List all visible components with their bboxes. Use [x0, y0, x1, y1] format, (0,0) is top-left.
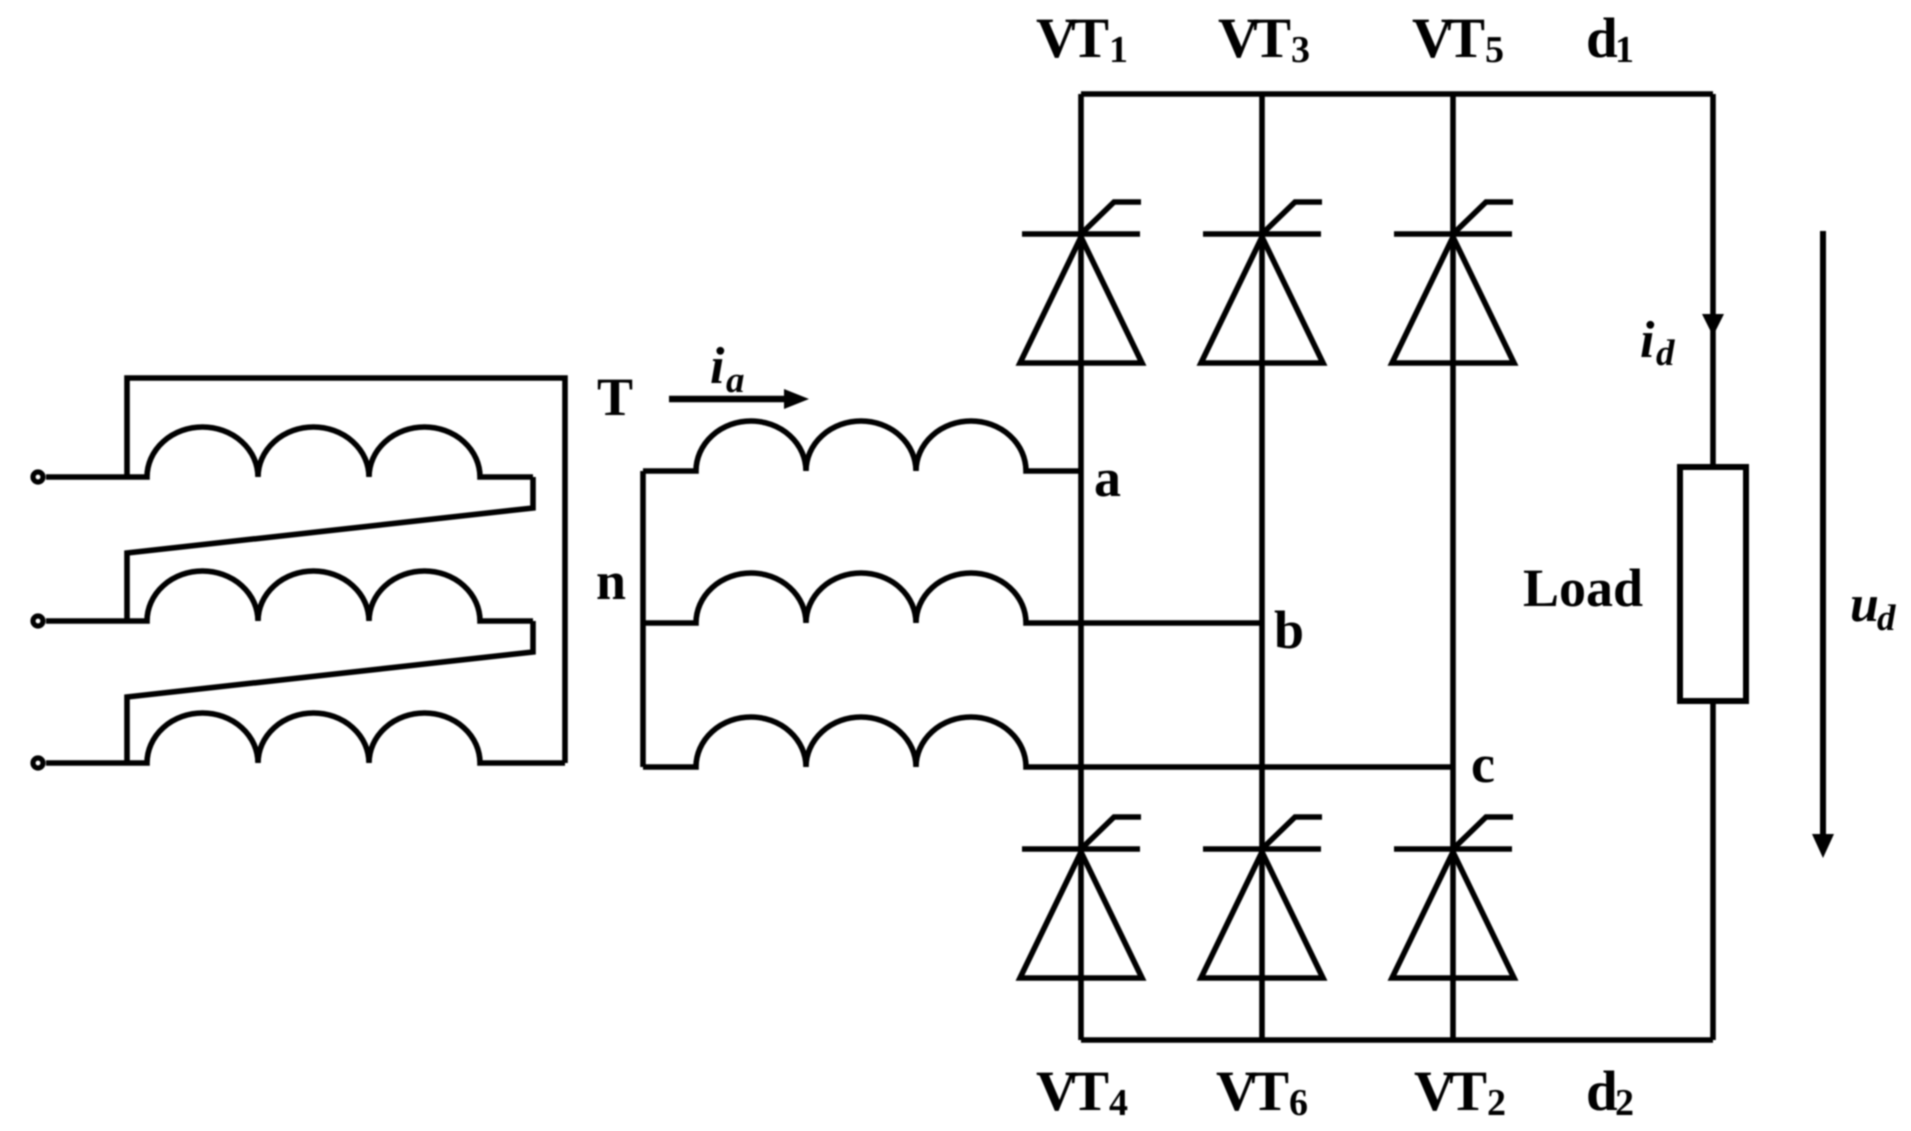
svg-text:VT: VT — [1216, 1060, 1289, 1123]
thyristor VT4 — [1020, 817, 1142, 978]
thyristor VT3 — [1201, 202, 1323, 363]
transformer T primary terminal 1 — [33, 472, 43, 482]
label ud — [1850, 576, 1896, 639]
wire delta link winding2 to winding3 — [127, 621, 533, 763]
svg-text:3: 3 — [1291, 29, 1310, 71]
wire delta frame (top link and right return) — [127, 378, 565, 763]
wire bottom DC bus d2 — [1081, 1037, 1713, 1043]
wire bridge leg phase b — [1259, 94, 1265, 1040]
wire bridge leg phase c — [1450, 94, 1456, 1040]
svg-text:d: d — [1877, 598, 1896, 639]
svg-text:i: i — [710, 338, 725, 395]
secondary winding a (coil) — [643, 421, 1081, 471]
svg-text:VT: VT — [1414, 1060, 1487, 1123]
wire d1 bus to load — [1710, 94, 1716, 464]
primary winding 3 (coil) — [127, 713, 565, 763]
arrow ia — [669, 389, 809, 409]
arrowhead current id — [1702, 314, 1724, 336]
primary winding 2 (coil) — [127, 571, 533, 621]
label d1 — [1586, 7, 1634, 71]
label id — [1640, 312, 1675, 374]
svg-text:b: b — [1274, 600, 1304, 660]
wire terminal2 to delta — [46, 618, 127, 624]
svg-text:VT: VT — [1036, 1060, 1109, 1123]
label VT1 — [1036, 7, 1128, 71]
label ia — [710, 338, 745, 401]
svg-text:6: 6 — [1289, 1082, 1308, 1124]
label VT3 — [1218, 7, 1310, 71]
svg-text:VT: VT — [1412, 7, 1485, 70]
secondary winding c (coil) — [643, 717, 1453, 767]
wire top DC bus d1 — [1081, 91, 1713, 97]
svg-text:u: u — [1850, 576, 1879, 633]
svg-text:Load: Load — [1523, 558, 1643, 618]
svg-text:VT: VT — [1036, 7, 1109, 70]
wire terminal1 to delta — [46, 474, 127, 480]
svg-text:VT: VT — [1218, 7, 1291, 70]
svg-text:d: d — [1586, 7, 1618, 70]
svg-text:i: i — [1640, 312, 1655, 369]
primary winding 1 (coil) — [127, 427, 533, 477]
load resistor box — [1680, 467, 1746, 701]
wire load to d2 bus — [1710, 701, 1716, 1040]
label VT6 — [1216, 1060, 1308, 1124]
thyristor VT6 — [1201, 817, 1323, 978]
transformer T primary terminal 3 — [33, 758, 43, 768]
svg-text:2: 2 — [1615, 1082, 1634, 1124]
label d2 — [1586, 1060, 1634, 1124]
thyristor VT1 — [1020, 202, 1142, 363]
svg-text:d: d — [1656, 333, 1675, 374]
wire secondary neutral bus n — [640, 471, 646, 767]
arrow ud — [1812, 231, 1834, 858]
thyristor VT2 — [1392, 817, 1514, 978]
svg-text:n: n — [596, 551, 626, 611]
secondary winding b (coil) — [643, 573, 1262, 623]
label VT2 — [1414, 1060, 1506, 1124]
svg-text:d: d — [1586, 1060, 1618, 1123]
wire terminal3 to delta — [46, 760, 127, 766]
wire bridge leg phase a — [1078, 94, 1084, 1040]
svg-text:c: c — [1471, 734, 1495, 794]
svg-text:a: a — [1094, 448, 1121, 508]
svg-text:5: 5 — [1485, 29, 1504, 71]
thyristor VT5 — [1392, 202, 1514, 363]
svg-text:2: 2 — [1487, 1082, 1506, 1124]
wire delta link winding1 to winding2 — [127, 477, 533, 621]
svg-text:a: a — [726, 360, 745, 401]
label VT5 — [1412, 7, 1504, 71]
label VT4 — [1036, 1060, 1128, 1124]
transformer T primary terminal 2 — [33, 616, 43, 626]
svg-text:T: T — [597, 367, 633, 427]
svg-text:1: 1 — [1615, 29, 1634, 71]
svg-text:1: 1 — [1109, 29, 1128, 71]
svg-text:4: 4 — [1109, 1082, 1128, 1124]
